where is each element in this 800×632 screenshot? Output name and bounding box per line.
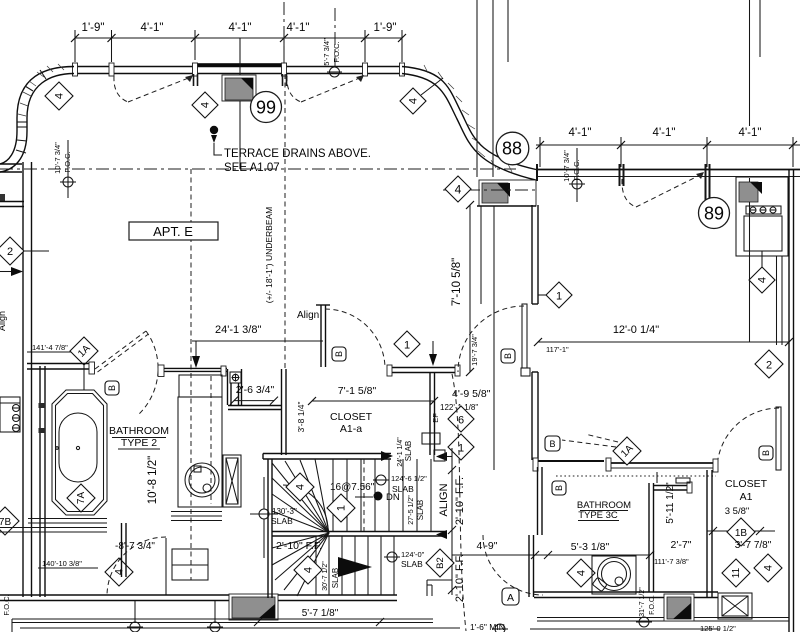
svg-text:F.O.C.: F.O.C. [332, 41, 341, 62]
svg-text:1'-9": 1'-9" [82, 22, 105, 34]
underbeam dashed line right [284, 74, 286, 368]
svg-text:TERRACE DRAINS ABOVE.: TERRACE DRAINS ABOVE. [224, 148, 371, 160]
curved corner wall top-left [0, 67, 74, 173]
svg-text:7'-10 5/8": 7'-10 5/8" [451, 258, 463, 306]
diamond keynote 1A bath3C door [613, 437, 641, 465]
column south [229, 594, 278, 620]
svg-text:BATHROOM: BATHROOM [109, 425, 169, 437]
column at grid 99 [222, 75, 256, 101]
svg-text:1: 1 [404, 340, 410, 352]
svg-text:10'-7 3/4": 10'-7 3/4" [562, 150, 571, 182]
underbeam dashed line left [190, 169, 192, 580]
svg-text:124'-0": 124'-0" [401, 550, 425, 559]
corridor vertical dimension line [451, 448, 453, 595]
centerline through column 88 [443, 189, 536, 191]
svg-text:4: 4 [455, 183, 462, 197]
right exterior wall [789, 169, 794, 632]
wall jamb blocks [73, 63, 405, 76]
F.O.C. datum right 10'-7 3/4 [562, 150, 581, 182]
misc bottom right dimension line [530, 628, 720, 630]
APT. E room tag box [129, 222, 218, 240]
stair north wall [263, 454, 391, 460]
top wall header thick segment [195, 63, 281, 67]
svg-text:5'-7 3/4": 5'-7 3/4" [322, 38, 331, 66]
S-curve hatch marks [424, 65, 512, 172]
svg-text:3'-8 1/4": 3'-8 1/4" [296, 401, 306, 432]
centerline horizontal [0, 168, 516, 170]
column at grid 89 [739, 182, 762, 202]
bathroom 3C north wall [537, 461, 716, 468]
shaft wall pair right [777, 256, 783, 345]
grid centerline x=335 [334, 8, 336, 66]
svg-text:4'-1": 4'-1" [287, 22, 310, 34]
diamond keynote 6 [448, 406, 474, 432]
jamb tick extensions [194, 74, 287, 86]
svg-text:88: 88 [502, 139, 522, 159]
label B corridor [501, 349, 515, 363]
vestibule north wall [161, 368, 227, 371]
F.O.C. target circle top [330, 67, 340, 77]
diamond keynote 4 bath3C [567, 559, 595, 587]
svg-text:B: B [107, 385, 117, 391]
svg-text:Align: Align [297, 310, 319, 321]
svg-text:89: 89 [704, 204, 724, 224]
counter right of toilet [171, 512, 222, 521]
vestibule fixture box [230, 372, 241, 383]
svg-text:B: B [549, 439, 555, 449]
svg-text:B: B [503, 353, 513, 359]
left fixtures cabinet [0, 397, 20, 432]
grid bubble 89 [699, 198, 730, 229]
niche jamb detail [657, 472, 690, 483]
svg-text:CLOSET: CLOSET [725, 478, 768, 490]
down arrow at closet wall [432, 341, 434, 356]
label B tub [105, 381, 119, 395]
duct shaft with X [223, 455, 241, 507]
bathroom2 north wall [27, 364, 92, 370]
south wall bathroom2 [0, 595, 397, 601]
dashed opening swing V left [114, 76, 128, 102]
diamond keynote 4 bathroom2 [105, 558, 133, 586]
closet A1-a right wall [430, 372, 435, 455]
diamond keynote 4 below fixture [749, 267, 775, 293]
diamond keynote 11 [722, 559, 750, 587]
grid centerline x=284 [283, 2, 285, 64]
diamond keynote 4 [192, 92, 218, 118]
svg-text:(+/- 18'-1") UNDERBEAM: (+/- 18'-1") UNDERBEAM [264, 207, 274, 304]
curve hatch marks [18, 64, 64, 116]
diamond keynote 4 lower stairs [294, 556, 322, 584]
svg-text:5'-7 1/8": 5'-7 1/8" [302, 608, 339, 619]
closet A1 door swing [717, 408, 779, 470]
svg-text:Align: Align [0, 311, 7, 331]
bath3C interior wall [649, 483, 690, 592]
diamond keynote 7B [0, 507, 19, 535]
svg-text:4: 4 [408, 98, 420, 104]
svg-text:4'-1": 4'-1" [569, 127, 592, 139]
svg-text:4'-1": 4'-1" [229, 22, 252, 34]
closet A1 door leaf [776, 407, 781, 470]
stair direction arrow [338, 557, 372, 577]
F.O.C. label 5'-7 3/4 [322, 38, 341, 66]
closet door swing [325, 309, 385, 367]
svg-text:TYPE 3C: TYPE 3C [578, 510, 618, 521]
F.O.C. datum left 10'-7 3/4 [53, 142, 72, 174]
toilet bath3C [592, 556, 636, 594]
diamond keynote 2 left [0, 237, 49, 265]
bathroom 3C west wall [529, 467, 542, 597]
svg-text:4'-1": 4'-1" [141, 22, 164, 34]
svg-text:4'-9": 4'-9" [477, 540, 498, 552]
svg-text:4: 4 [114, 569, 126, 575]
svg-text:11: 11 [731, 567, 742, 578]
svg-text:B2: B2 [435, 557, 446, 569]
slab datum circles bottom [127, 601, 508, 632]
svg-text:10'-7 3/4": 10'-7 3/4" [53, 142, 62, 174]
svg-text:A1-a: A1-a [340, 423, 362, 435]
bath3C door swing [483, 535, 543, 595]
diamond keynote 4 stairs [286, 473, 314, 501]
svg-text:6: 6 [458, 415, 464, 427]
curved wall jamb ticks [16, 70, 46, 153]
elevator shaft X box [718, 593, 752, 619]
label B closet A1 [759, 446, 773, 460]
diamond keynote 1 closet door [394, 331, 420, 357]
svg-text:B: B [334, 351, 344, 357]
svg-text:A1: A1 [740, 491, 753, 503]
wall arrow left [11, 267, 23, 276]
bathroom2 door swing [95, 331, 146, 369]
svg-text:141'-4 7/8": 141'-4 7/8" [32, 343, 68, 352]
corridor wall verticals from top [477, 0, 508, 177]
slab datum 124'-6 1/2 [376, 475, 386, 485]
DN marker [355, 496, 373, 498]
svg-text:1'-9": 1'-9" [374, 22, 397, 34]
svg-text:30'-7 1/2": 30'-7 1/2" [322, 561, 329, 591]
bathroom2 south door leaf [165, 538, 167, 595]
diamond keynote 1B [707, 518, 775, 546]
corridor door leaf [522, 304, 527, 368]
svg-text:19'-7 3/4": 19'-7 3/4" [470, 334, 479, 366]
diamond keynote 2 right [755, 350, 783, 378]
svg-text:2'-10" F.F.: 2'-10" F.F. [454, 554, 466, 602]
cabinet bathroom2 south [172, 549, 208, 580]
svg-text:SEE A1.07: SEE A1.07 [224, 162, 280, 174]
lower run treads [316, 536, 394, 595]
svg-text:B: B [761, 450, 771, 456]
dashed fixture line bathroom2 [210, 376, 212, 504]
svg-text:SLAB: SLAB [392, 484, 414, 494]
label B bath3C top [545, 436, 560, 451]
vanity counter bathroom2 [179, 375, 222, 397]
svg-text:7'-1 5/8": 7'-1 5/8" [338, 385, 377, 397]
svg-text:1: 1 [336, 505, 348, 511]
svg-text:5'-11 1/2": 5'-11 1/2" [665, 482, 676, 524]
counters below tub [0, 519, 107, 533]
svg-text:ALIGN: ALIGN [438, 483, 450, 516]
label B closet A1-a [332, 347, 346, 361]
svg-text:2'-7": 2'-7" [671, 539, 692, 551]
svg-text:130'-3": 130'-3" [272, 507, 297, 516]
svg-text:4: 4 [757, 277, 769, 283]
dimension tick slashes top [71, 34, 406, 42]
stair landing wall [272, 532, 446, 537]
column bath3C south [664, 594, 694, 621]
vertical dimension 7'-10 5/8 [469, 205, 471, 372]
diamond keynote 1 corridor door [538, 282, 572, 308]
svg-text:2: 2 [766, 360, 772, 372]
partition wall bathroom2 south [122, 523, 127, 577]
svg-text:99: 99 [256, 98, 276, 118]
toilet bathroom2 [185, 463, 219, 497]
svg-text:140'-10 3/8": 140'-10 3/8" [42, 559, 82, 568]
landing wall end arrow left [436, 530, 447, 539]
svg-text:CLOSET: CLOSET [330, 411, 373, 423]
label B bath3C rotated [552, 481, 566, 495]
svg-text:111'-7 3/8": 111'-7 3/8" [654, 557, 689, 566]
underbeam rotated note [264, 207, 274, 304]
dashed egress line stairs [363, 459, 365, 531]
top dimension labels [82, 22, 397, 34]
diamond keynote 1A bathroom2 door [70, 337, 98, 365]
svg-text:2'-6 3/4": 2'-6 3/4" [236, 384, 275, 396]
svg-text:SLAB: SLAB [271, 516, 293, 526]
diamond keynote 4 rotated on curve [45, 82, 73, 110]
svg-text:24'-1 1/4": 24'-1 1/4" [397, 437, 404, 467]
diamond keynote 7A [67, 484, 95, 512]
svg-text:117'-1": 117'-1" [546, 345, 569, 354]
bath3C east wall [707, 470, 712, 597]
right top dimension labels [569, 127, 762, 139]
svg-text:F.O.C.: F.O.C. [2, 594, 11, 615]
left exterior wall [0, 162, 32, 597]
diamond keynote 4 on S-curve [400, 78, 443, 114]
svg-text:SLAB: SLAB [331, 568, 340, 588]
svg-text:1'-6" MIN: 1'-6" MIN [470, 622, 505, 632]
svg-text:3'-7 7/8": 3'-7 7/8" [735, 540, 772, 551]
grid bubble 99 [251, 92, 282, 123]
svg-text:27'-5 1/2": 27'-5 1/2" [408, 495, 415, 525]
svg-text:4: 4 [54, 93, 66, 99]
diamond keynote B2 [426, 549, 454, 577]
terrace drain keynote flag [210, 126, 222, 155]
svg-text:3 5/8": 3 5/8" [725, 506, 750, 517]
svg-text:124'-6 1/2": 124'-6 1/2" [391, 474, 427, 483]
svg-text:4: 4 [295, 484, 307, 490]
bathroom2 south door swing [107, 537, 166, 596]
inner wall pair bathroom2 left [40, 366, 45, 597]
right top dimension line [536, 137, 800, 167]
winder treads fan [272, 459, 329, 596]
svg-text:EF: EF [431, 413, 440, 423]
svg-text:4'-1": 4'-1" [653, 127, 676, 139]
svg-text:TYPE 2: TYPE 2 [121, 437, 157, 449]
svg-text:2'-10" F.F.: 2'-10" F.F. [276, 540, 322, 552]
corridor end walls [427, 580, 452, 596]
svg-text:12'-0 1/4": 12'-0 1/4" [613, 324, 659, 336]
closet A1-a left wall [282, 369, 287, 455]
dashed opening swing V right wall [622, 179, 636, 207]
grid bubble 88 [496, 132, 529, 165]
svg-text:1B: 1B [735, 528, 748, 539]
diamond keynote 4 left of column 88 [445, 176, 471, 202]
svg-text:APT. E: APT. E [153, 224, 193, 239]
water heater fixture below column 89 [736, 177, 788, 268]
svg-text:4: 4 [763, 565, 775, 571]
svg-text:SLAB: SLAB [416, 500, 425, 520]
upper run treads [333, 459, 431, 531]
svg-text:4: 4 [200, 102, 212, 108]
closet A1-a north wall [389, 368, 460, 373]
bathtub [52, 390, 107, 515]
vestibule south wall [228, 406, 281, 410]
label A [502, 588, 519, 605]
svg-text:16@7.56": 16@7.56" [330, 482, 375, 493]
svg-text:SLAB: SLAB [401, 559, 423, 569]
svg-text:B: B [554, 485, 564, 491]
svg-text:2: 2 [7, 246, 13, 258]
svg-text:4'-1": 4'-1" [739, 127, 762, 139]
svg-text:A: A [507, 592, 514, 604]
bath3C south wall [534, 592, 718, 598]
column at grid 88 [479, 180, 536, 206]
diamond keynote 4 closet A1 [754, 554, 782, 582]
corridor door swing [458, 306, 524, 372]
svg-text:7B: 7B [0, 517, 11, 528]
svg-text:1: 1 [556, 291, 562, 303]
grid line through column x=240 [239, 38, 241, 169]
right top wall band [536, 170, 800, 177]
svg-text:4: 4 [576, 570, 588, 576]
svg-text:SLAB: SLAB [404, 441, 413, 461]
svg-text:4: 4 [303, 567, 315, 573]
slab datum 124'-0 [387, 552, 397, 562]
diamond keynote 1 [448, 434, 474, 460]
diamond keynote 1 stairs [327, 494, 355, 522]
grid line verticals right [750, 0, 761, 342]
svg-text:5'-3 1/8": 5'-3 1/8" [571, 541, 610, 553]
svg-text:24'-1 3/8": 24'-1 3/8" [215, 324, 261, 336]
top wall band [74, 67, 402, 74]
EF fixture box [422, 433, 440, 444]
bottom wall bands [12, 619, 460, 632]
stair wall end arrow right [381, 451, 393, 461]
right wall jamb blocks [537, 164, 710, 203]
winder walkline arc [283, 485, 328, 530]
slab datum 130'-3 [259, 509, 269, 519]
corridor wall right of APT E [477, 205, 538, 460]
corridor edge line [480, 206, 482, 304]
S-curve wall to grid 88 [402, 67, 536, 181]
stair west wall [268, 459, 272, 598]
svg-text:7A: 7A [76, 492, 87, 505]
alignment arrow left upper [436, 452, 447, 461]
svg-text:125'-0 1/2": 125'-0 1/2" [700, 624, 736, 632]
dotted wall line bath3C [556, 475, 716, 477]
svg-text:F.O.C.: F.O.C. [649, 595, 656, 615]
dashed leaders from 1A [562, 440, 616, 447]
svg-text:10'-8 1/2": 10'-8 1/2" [147, 456, 159, 504]
small dark block left edge [0, 194, 5, 201]
dashed opening swing V right [287, 76, 301, 102]
svg-text:4'-9 5/8": 4'-9 5/8" [452, 388, 491, 400]
bottom band lines right [537, 618, 789, 622]
top dimension line [75, 30, 402, 62]
svg-text:31'-7 1/2": 31'-7 1/2" [639, 587, 646, 617]
